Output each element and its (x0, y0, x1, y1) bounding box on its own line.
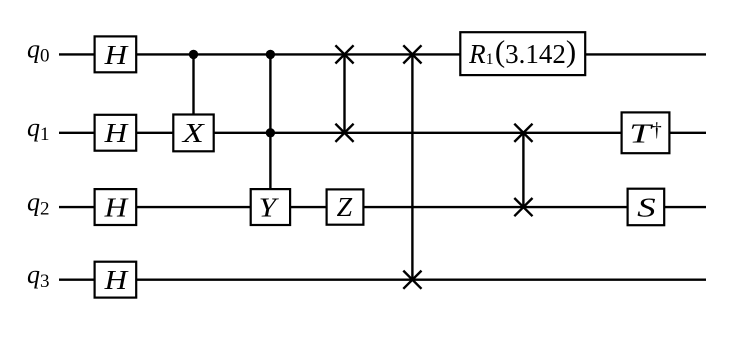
swap cross on q0 (q0-q1 swap) (335, 45, 353, 63)
gate Y target on q2 (251, 189, 290, 225)
svg-text:†: † (652, 119, 662, 141)
swap cross on q2 (q1-q2 swap) (514, 198, 532, 216)
wire SWAP vertical q0-q1 (343, 54, 345, 132)
control dot CCY on q1 (266, 128, 275, 137)
svg-text:H: H (103, 40, 128, 70)
wire q1 (59, 132, 706, 134)
wire q2 (59, 206, 706, 208)
svg-text:R1(3.142): R1(3.142) (468, 34, 576, 69)
wire CCY control vertical q0-q2 (269, 54, 271, 189)
wire q3 (59, 279, 706, 281)
swap cross on q3 (q0-q3 swap) (403, 271, 421, 289)
wire q0 (59, 53, 706, 55)
gate H on q2 (95, 189, 137, 225)
svg-text:H: H (103, 193, 128, 223)
swap cross on q1 (q1-q2 swap) (514, 124, 532, 142)
gate H on q0 (95, 36, 137, 72)
gate R1(3.142) on q0 (460, 32, 585, 75)
wire SWAP vertical q1-q2 (522, 133, 524, 207)
swap cross on q0 (q0-q3 swap) (403, 45, 421, 63)
gate X target on q1 (173, 115, 213, 152)
svg-text:X: X (182, 118, 206, 148)
gate H on q1 (95, 115, 137, 151)
control dot CCY on q0 (266, 50, 275, 59)
svg-text:T: T (629, 118, 653, 148)
wire SWAP vertical q0-q3 (411, 54, 413, 279)
svg-text:H: H (103, 265, 128, 295)
wire CX control-target vertical q0-q1 (192, 54, 194, 115)
swap cross on q1 (q0-q1 swap) (335, 124, 353, 142)
gate Z on q2 (327, 189, 364, 224)
gate S on q2 (628, 189, 665, 226)
svg-text:Z: Z (337, 192, 353, 222)
svg-text:S: S (637, 192, 656, 222)
control dot CX on q0 (189, 50, 198, 59)
gate H on q3 (95, 262, 137, 298)
svg-text:H: H (103, 118, 128, 148)
gate T-dagger on q1 (622, 112, 670, 153)
